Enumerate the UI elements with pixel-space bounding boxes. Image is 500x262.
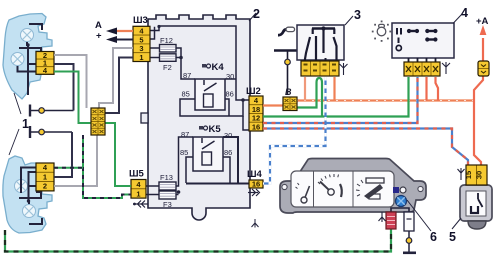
resistor red bbox=[386, 212, 396, 229]
connector В bbox=[283, 87, 297, 111]
left notch on block bbox=[141, 113, 148, 123]
label 6 callout bbox=[407, 200, 431, 231]
wire green middle conn to Sh5-4 bbox=[105, 123, 131, 186]
svg-text:1: 1 bbox=[22, 117, 29, 131]
svg-text:16: 16 bbox=[252, 122, 260, 131]
wire orange row to switches bbox=[296, 99, 474, 101]
ground fork right of sw4 bbox=[442, 62, 450, 74]
wire blue-white dash sw3 pin3 to Sh4-16 bbox=[263, 77, 326, 184]
fuse F2 bbox=[160, 54, 177, 72]
connector of switch 3 bbox=[301, 61, 339, 76]
svg-text:А: А bbox=[95, 20, 102, 31]
headlamp 1 lower housing bbox=[3, 156, 52, 233]
T-bar with bead above B bbox=[274, 49, 300, 52]
lamp icon left of switch4 bbox=[377, 24, 386, 35]
svg-text:1: 1 bbox=[43, 172, 47, 181]
svg-text:1: 1 bbox=[139, 53, 143, 62]
wire: block top rail from Sh3-4 to right side down to Sh2-4 bbox=[150, 26, 249, 100]
wire orange +A down to ignition 30 bbox=[482, 38, 484, 62]
wire: Sh3-1 to fuse F2 bbox=[150, 57, 160, 59]
svg-text:F12: F12 bbox=[160, 36, 173, 45]
indicator lamp blue bbox=[396, 196, 407, 207]
wire: Sh3-5 jog to top rail bbox=[150, 27, 155, 39]
lamp socket wiring bbox=[391, 208, 409, 212]
gauge 2 bbox=[318, 174, 339, 184]
svg-text:86: 86 bbox=[226, 90, 234, 99]
svg-text:1: 1 bbox=[136, 189, 140, 198]
ground bolt top bbox=[30, 64, 74, 117]
K4 coil loop wires bbox=[225, 78, 236, 80]
svg-text:30: 30 bbox=[475, 171, 484, 179]
wire: Sh3-3 to fuse F12 bbox=[150, 47, 160, 49]
fuel gauge limiter white bbox=[404, 212, 414, 231]
svg-text:F3: F3 bbox=[163, 200, 172, 209]
wire grey hl1-2 to middle conn bbox=[54, 55, 87, 108]
ground fork right of sw3 bbox=[340, 63, 348, 75]
node A feed arrows bbox=[95, 20, 133, 43]
ground fork left of resistor bbox=[379, 212, 386, 222]
wire: fuse outputs joined, down to K4 pin87 bbox=[176, 48, 195, 79]
svg-text:+: + bbox=[96, 31, 102, 42]
wire grey hl2-2 up to middle conn bbox=[54, 135, 97, 186]
svg-text:2: 2 bbox=[253, 7, 260, 21]
wire green-black dashed to Sh5-1 bbox=[54, 135, 131, 198]
svg-text:5: 5 bbox=[449, 230, 456, 244]
ground fork below Sh4 bbox=[252, 219, 259, 228]
svg-text:3: 3 bbox=[139, 44, 143, 53]
wire salmon riser to sw3 pin1 bbox=[304, 77, 306, 101]
relay K4 bbox=[182, 62, 235, 110]
svg-text:85: 85 bbox=[180, 148, 188, 157]
label 2 callout bbox=[249, 13, 256, 21]
svg-text:18: 18 bbox=[252, 105, 260, 114]
relay K5 bbox=[180, 124, 232, 171]
wire blue-red dash Sh2-16a to sw4 pin2 bbox=[263, 77, 418, 123]
svg-text:Ш5: Ш5 bbox=[129, 169, 145, 180]
arrow +A bbox=[480, 25, 487, 35]
svg-text:2: 2 bbox=[43, 182, 47, 191]
ignition switch terminals 15 30 bbox=[464, 165, 487, 185]
connector Ш2 bbox=[246, 86, 263, 131]
lamp high beam bbox=[21, 29, 34, 42]
lamp low beam bbox=[11, 53, 24, 66]
junction node top rail bbox=[157, 25, 160, 28]
svg-text:K4: K4 bbox=[212, 62, 225, 73]
internal wiring bbox=[29, 24, 42, 30]
wire green conn B loop to sw3 bbox=[296, 83, 317, 108]
svg-text:85: 85 bbox=[182, 90, 190, 99]
stalk handle icon bbox=[278, 29, 287, 35]
svg-text:12: 12 bbox=[252, 114, 260, 123]
wire green hl1-4 down to middle conn bbox=[54, 72, 91, 124]
svg-text:F2: F2 bbox=[163, 63, 172, 72]
svg-text:5: 5 bbox=[139, 35, 143, 44]
wire orange riser sw3 pin4 bbox=[333, 77, 335, 101]
wire dark Sh3-1 down bbox=[105, 58, 133, 114]
wire down with bead to ground bbox=[408, 231, 410, 252]
fuse F3 bbox=[159, 191, 176, 209]
ground T bbox=[403, 252, 416, 255]
connector Ш4 bbox=[247, 169, 263, 189]
svg-text:15: 15 bbox=[464, 171, 473, 179]
fuse F12 bbox=[160, 36, 177, 52]
harness arrow right bbox=[248, 189, 260, 196]
ground bolt bottom bbox=[30, 126, 72, 177]
small indicators right bbox=[393, 187, 399, 193]
svg-text:Ш4: Ш4 bbox=[247, 169, 263, 180]
connector front harness joint bbox=[91, 108, 105, 135]
svg-text:+А: +А bbox=[476, 16, 489, 27]
headlamp 1 upper housing bbox=[3, 14, 52, 100]
fuse F13 bbox=[159, 173, 176, 190]
K5 wires: 30 down to Sh4-16, coil loop bbox=[223, 137, 249, 184]
wire green row Sh2-12 to sw4 pin1 bbox=[263, 77, 409, 117]
connector Ш3 bbox=[133, 15, 150, 62]
wires: F13/F3 to K5-87 bbox=[146, 185, 159, 187]
svg-text:30: 30 bbox=[224, 131, 232, 140]
svg-text:В: В bbox=[285, 87, 292, 97]
internal wiring bbox=[29, 218, 42, 224]
svg-text:6: 6 bbox=[430, 230, 437, 244]
ground fork left of ignition (up) bbox=[458, 168, 465, 180]
svg-text:F13: F13 bbox=[160, 173, 173, 182]
svg-text:86: 86 bbox=[224, 148, 232, 157]
svg-text:K5: K5 bbox=[209, 124, 222, 135]
connector of switch 4 bbox=[404, 62, 440, 76]
gauge 1 bbox=[301, 197, 307, 203]
inline connector +A feed bbox=[478, 61, 489, 76]
wire: node down to Sh2-16 bbox=[243, 116, 249, 130]
svg-text:Ш3: Ш3 bbox=[133, 15, 148, 26]
junction node fuse output bbox=[179, 56, 183, 60]
svg-text:3: 3 bbox=[354, 8, 361, 22]
svg-text:87: 87 bbox=[183, 71, 191, 80]
wire orange sw4 pin4 bbox=[436, 77, 439, 101]
svg-text:4: 4 bbox=[461, 6, 468, 20]
gauge 3 speed/odometer bbox=[366, 178, 384, 183]
svg-text:16: 16 bbox=[252, 180, 260, 189]
wire orange riser sw4 pin3 bbox=[425, 77, 427, 101]
connector headlamp 1 upper bbox=[36, 51, 54, 75]
connector Ш5 bbox=[129, 169, 146, 199]
connector headlamp 1 lower bbox=[36, 163, 54, 191]
wire orange Sh2-18 to conn B bbox=[263, 104, 283, 106]
wire grey Sh3-3 down bbox=[99, 48, 133, 108]
mounting block body bbox=[141, 15, 250, 220]
harness arrow left bbox=[133, 201, 148, 208]
wire blue-red dash Sh2-16b to ignition 15 bbox=[263, 129, 468, 167]
